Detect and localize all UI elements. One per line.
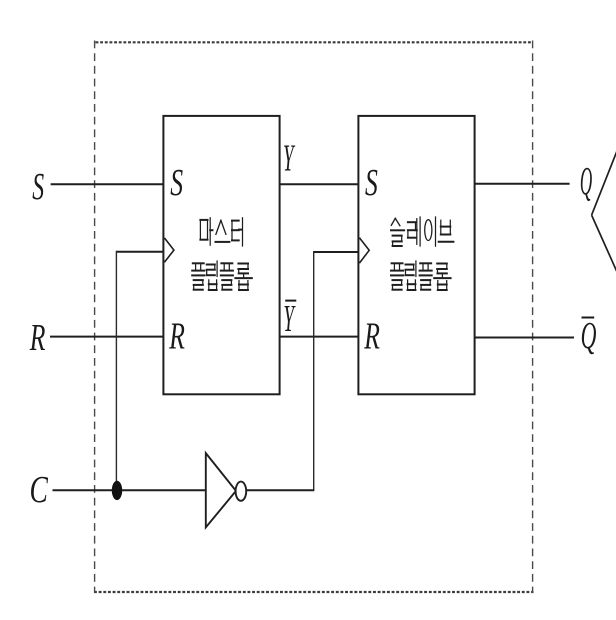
dashed enclosure top border xyxy=(96,41,534,43)
wire: inverted clock to slave (horizontal) xyxy=(314,251,359,253)
wire: clock to master (vertical drop) xyxy=(115,251,117,491)
inverter U3 output bubble xyxy=(236,482,247,501)
wire: S input xyxy=(51,183,164,185)
wire: Y (master Q to slave S) xyxy=(280,183,359,185)
dashed enclosure bottom border xyxy=(94,591,534,593)
slave flip-flop box U2 xyxy=(358,116,474,394)
wire: inverter output xyxy=(246,489,314,491)
wire: R input xyxy=(50,336,163,338)
svg-text:S: S xyxy=(32,165,44,207)
wire: clock to master (horizontal) xyxy=(116,251,163,253)
wire: inverted clock to slave (vertical riser) xyxy=(313,251,315,490)
wire: Q output xyxy=(474,183,569,185)
svg-text:S: S xyxy=(170,162,183,204)
svg-text:Q: Q xyxy=(580,159,592,203)
slave flip-flop name text 플립플롭 xyxy=(391,261,451,290)
inverter U3 triangle xyxy=(206,453,236,527)
svg-text:R: R xyxy=(168,316,185,358)
dashed enclosure right border xyxy=(532,41,534,594)
svg-text:S: S xyxy=(365,162,378,204)
master clock input wedge xyxy=(164,238,174,262)
dashed enclosure left border xyxy=(94,41,96,594)
svg-text:Q: Q xyxy=(581,314,597,357)
output label Q-bar overline xyxy=(582,317,595,319)
node label Y-bar overline xyxy=(285,300,296,302)
junction dot on C line (node CLK) xyxy=(112,481,122,500)
svg-text:R: R xyxy=(363,316,380,358)
master flip-flop box U1 xyxy=(163,116,279,394)
wire: C input xyxy=(53,489,206,491)
master flip-flop name text 플립플롭 xyxy=(192,261,252,290)
wire: Q-bar output xyxy=(474,337,574,339)
svg-text:C: C xyxy=(30,469,49,511)
slave clock input wedge xyxy=(359,238,369,263)
slave flip-flop name text 슬레이브 xyxy=(391,217,453,246)
svg-text:R: R xyxy=(29,317,46,359)
master flip-flop name text 마스터 xyxy=(200,218,242,246)
diagonal line upper (cropped connection at right edge) xyxy=(592,150,616,216)
diagonal line lower (cropped connection at right edge) xyxy=(592,215,616,273)
wire: Y-bar (master Qbar to slave R) xyxy=(280,336,359,338)
